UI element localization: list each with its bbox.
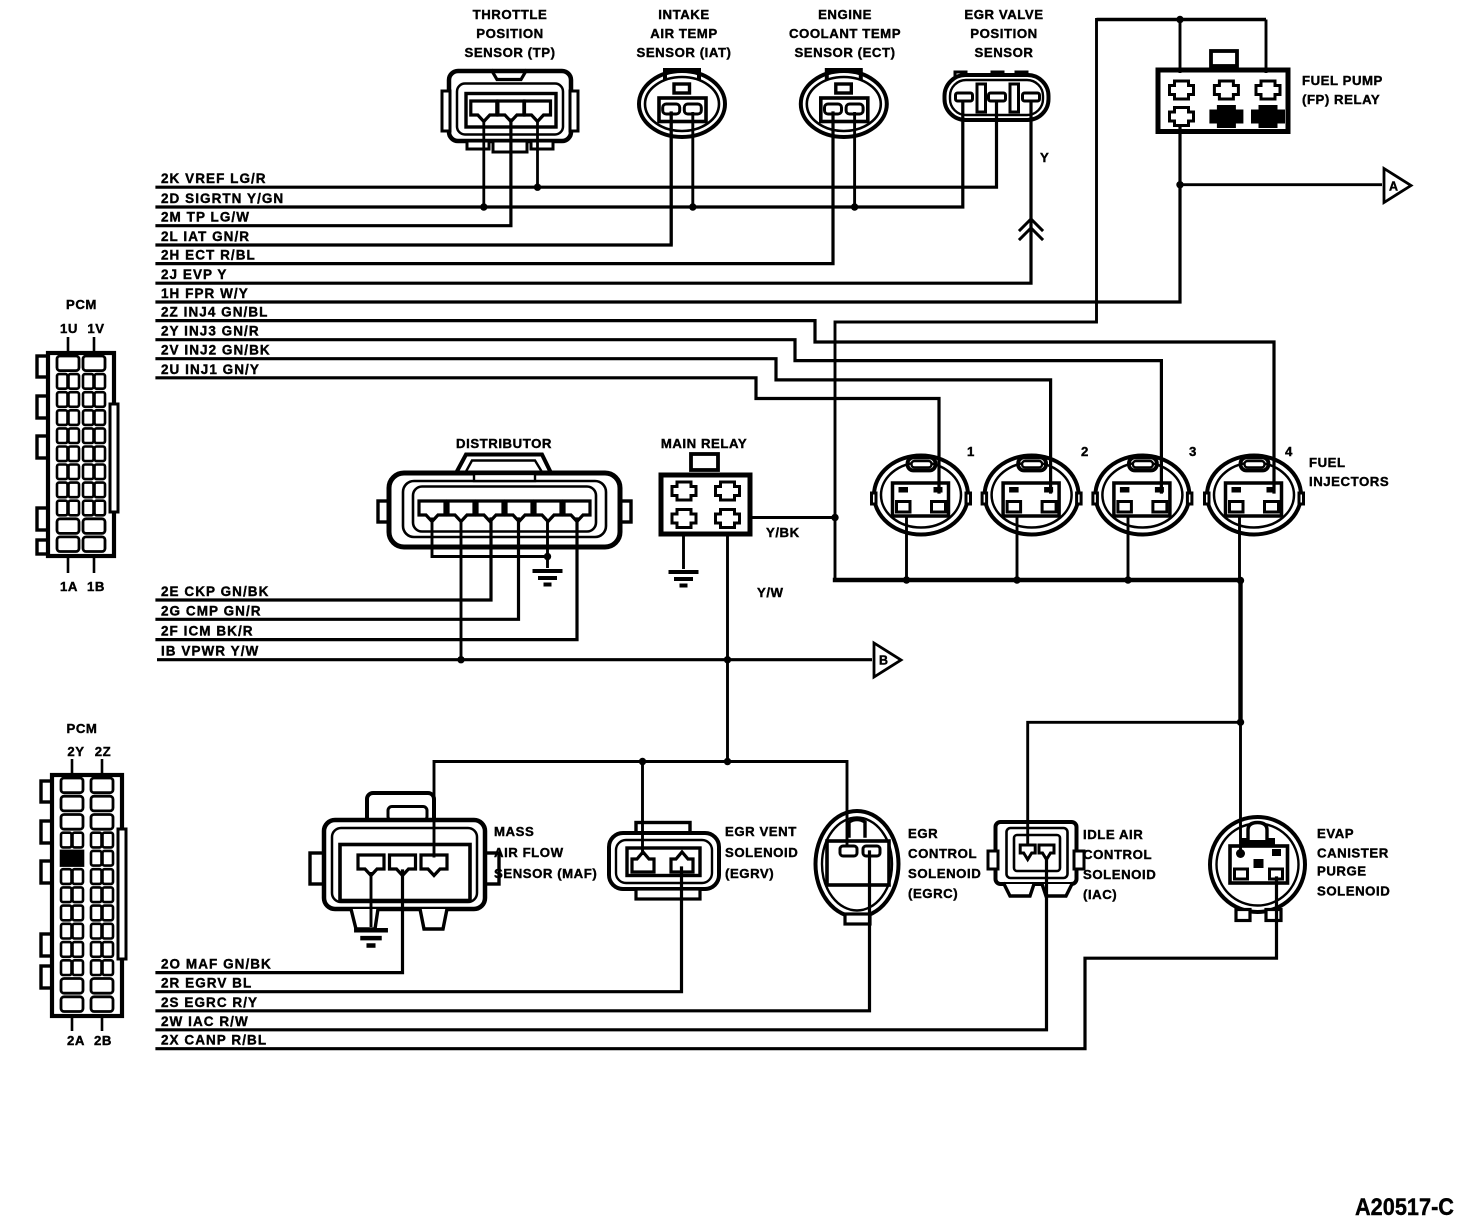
svg-text:SENSOR (IAT): SENSOR (IAT) bbox=[636, 45, 731, 60]
FP relay pin top-right bbox=[1256, 81, 1280, 99]
svg-text:2: 2 bbox=[1081, 444, 1089, 459]
svg-text:MASS: MASS bbox=[494, 824, 534, 839]
wire injector 2 return bbox=[1016, 515, 1019, 580]
MAF pin 1 bbox=[358, 855, 384, 876]
FP relay pin bottom-right (filled) bbox=[1253, 107, 1284, 127]
FP relay pin bottom-mid (filled) bbox=[1211, 107, 1242, 127]
IAC pin 1 bbox=[1020, 845, 1035, 860]
wire 2J EVP row to EGR pin 3 bbox=[157, 103, 1031, 283]
MAF pin 3 bbox=[421, 855, 447, 876]
svg-text:2M TP LG/W: 2M TP LG/W bbox=[161, 210, 250, 225]
svg-text:2Y: 2Y bbox=[67, 744, 84, 759]
EGRC pin 1 bbox=[840, 846, 857, 856]
wire 2O MAF row to MAF pin 2 bbox=[157, 871, 403, 973]
EGR sensor pin 2 bbox=[989, 93, 1006, 101]
junction Y/W branch bbox=[724, 758, 731, 765]
FP relay pin top-mid bbox=[1214, 81, 1238, 99]
svg-text:INTAKE: INTAKE bbox=[658, 7, 709, 22]
svg-text:(IAC): (IAC) bbox=[1083, 887, 1117, 902]
svg-text:1A: 1A bbox=[60, 579, 78, 594]
EGR sensor pin 3 bbox=[1023, 93, 1040, 101]
distributor pin 4 bbox=[506, 501, 532, 522]
wire injector 1 return bbox=[905, 515, 908, 580]
svg-text:2R EGRV BL: 2R EGRV BL bbox=[161, 976, 252, 991]
connector arrow A bbox=[1384, 169, 1411, 203]
distributor pin 1 bbox=[419, 501, 445, 522]
wire 2Y INJ3 row to injector 3 bbox=[157, 340, 1161, 492]
svg-text:IB VPWR Y/W: IB VPWR Y/W bbox=[161, 644, 259, 659]
svg-text:Y/BK: Y/BK bbox=[766, 525, 800, 540]
chevron marker on Y wire bbox=[1020, 228, 1042, 239]
intake air temp sensor (IAT) connector bbox=[639, 70, 725, 137]
wire PCM 1B stub bbox=[93, 556, 96, 573]
svg-text:CONTROL: CONTROL bbox=[1083, 847, 1152, 862]
wire 2X CANP row to EVAP solenoid bbox=[157, 878, 1277, 1049]
wire 2G CMP row to distributor pin 4 bbox=[157, 519, 519, 619]
chevron marker 2 on Y wire bbox=[1020, 219, 1042, 230]
svg-text:SENSOR (ECT): SENSOR (ECT) bbox=[794, 45, 895, 60]
wire 2R EGRV row to EGRV pin 2 bbox=[157, 868, 682, 992]
wire 2L IAT row to IAT pin 1 bbox=[157, 113, 671, 245]
svg-text:CANISTER: CANISTER bbox=[1317, 846, 1389, 861]
TP bottom tab right bbox=[531, 141, 553, 149]
svg-text:2D SIGRTN Y/GN: 2D SIGRTN Y/GN bbox=[161, 191, 284, 206]
wire supply bus to EVAP solenoid bbox=[1239, 722, 1242, 852]
junction 2K/TP3 bbox=[534, 184, 541, 191]
svg-text:(EGRC): (EGRC) bbox=[908, 886, 958, 901]
PCM connector upper bbox=[37, 353, 118, 556]
svg-text:POSITION: POSITION bbox=[970, 26, 1037, 41]
junction 2D/TP1 bbox=[480, 203, 487, 210]
svg-text:A: A bbox=[1389, 180, 1398, 194]
EGRC pin 2 bbox=[863, 846, 880, 856]
throttle position sensor (TP) connector bbox=[442, 71, 578, 141]
svg-text:1H FPR W/Y: 1H FPR W/Y bbox=[161, 286, 249, 301]
svg-text:SOLENOID: SOLENOID bbox=[1083, 867, 1156, 882]
svg-text:FUEL: FUEL bbox=[1309, 455, 1346, 470]
wire 2V INJ2 row to injector 2 bbox=[157, 359, 1051, 492]
svg-text:SOLENOID: SOLENOID bbox=[725, 845, 798, 860]
MAF pin 2 bbox=[390, 855, 416, 876]
IAC pin 2 bbox=[1039, 845, 1054, 860]
svg-text:1B: 1B bbox=[87, 579, 105, 594]
distributor pin 5 bbox=[535, 501, 561, 522]
svg-text:A20517-C: A20517-C bbox=[1355, 1194, 1454, 1221]
engine coolant temp sensor (ECT) connector bbox=[801, 70, 887, 137]
engine coolant temp sensor (ECT) connector pin 1 bbox=[825, 104, 842, 114]
TP pin 3 bbox=[525, 101, 551, 122]
svg-text:EGR VALVE: EGR VALVE bbox=[964, 7, 1043, 22]
wire PCM 1V stub bbox=[93, 337, 96, 353]
distributor pin 2 bbox=[448, 501, 474, 522]
svg-text:SOLENOID: SOLENOID bbox=[1317, 884, 1390, 899]
FP relay pin bottom-left bbox=[1170, 108, 1194, 126]
svg-text:1: 1 bbox=[967, 444, 975, 459]
wire 2S EGRC row to EGRC pin 2 bbox=[157, 852, 870, 1011]
connector arrow B bbox=[874, 643, 901, 677]
svg-text:1U: 1U bbox=[60, 321, 78, 336]
svg-text:AIR TEMP: AIR TEMP bbox=[650, 26, 717, 41]
svg-text:2X CANP R/BL: 2X CANP R/BL bbox=[161, 1033, 267, 1048]
svg-text:3: 3 bbox=[1189, 444, 1197, 459]
EGR valve position sensor connector bbox=[945, 72, 1049, 120]
junction IAC branch bbox=[1237, 719, 1244, 726]
EVAP top bell bbox=[1248, 823, 1267, 841]
wire IB VPWR row bbox=[157, 658, 872, 661]
main relay pin 1 bbox=[672, 482, 696, 500]
wire 1H FPR row to FP relay bbox=[157, 128, 1180, 302]
svg-text:2U INJ1 GN/Y: 2U INJ1 GN/Y bbox=[161, 362, 260, 377]
ground symbol main relay bbox=[669, 572, 699, 586]
EGRC top tab bbox=[849, 820, 865, 837]
main relay bbox=[661, 454, 750, 534]
wire main relay feed to FP relay bus bbox=[835, 20, 1097, 581]
svg-text:2B: 2B bbox=[94, 1033, 112, 1048]
wire FP relay top bus bbox=[1097, 18, 1267, 22]
svg-text:SENSOR (MAF): SENSOR (MAF) bbox=[494, 866, 597, 881]
wire IAC pin1 to supply bus bbox=[1028, 722, 1241, 845]
svg-text:IDLE AIR: IDLE AIR bbox=[1083, 827, 1143, 842]
wire 2W IAC row to IAC pin 2 bbox=[157, 858, 1047, 1030]
wire to FP relay pin top-left bbox=[1179, 20, 1182, 74]
junction 2D/ECT2 bbox=[851, 203, 858, 210]
wire 2M TP row to TP pin 2 bbox=[157, 120, 511, 226]
junction distributor ground bbox=[544, 553, 551, 560]
junction FP bus bbox=[1176, 16, 1183, 23]
svg-text:Y/W: Y/W bbox=[757, 585, 784, 600]
PCM connector lower bbox=[41, 775, 126, 1016]
svg-text:2J EVP Y: 2J EVP Y bbox=[161, 267, 227, 282]
idle air control solenoid (IAC) connector bbox=[988, 822, 1084, 896]
svg-text:PCM: PCM bbox=[66, 297, 97, 312]
fuel injector 1 bbox=[872, 456, 971, 535]
junction 2D/IAT2 bbox=[689, 203, 696, 210]
wire ECT pin2 to 2D bbox=[853, 112, 856, 207]
wire 2E CKP row to distributor pin 3 bbox=[157, 519, 491, 600]
EGRV pin 1 bbox=[632, 852, 654, 872]
svg-text:4: 4 bbox=[1285, 444, 1293, 459]
svg-text:2V INJ2 GN/BK: 2V INJ2 GN/BK bbox=[161, 343, 271, 358]
distributor pin 3 bbox=[477, 501, 503, 522]
svg-text:CONTROL: CONTROL bbox=[908, 846, 977, 861]
svg-text:FUEL PUMP: FUEL PUMP bbox=[1302, 73, 1383, 88]
MAF left foot bbox=[351, 909, 378, 929]
EGR control solenoid (EGRC) connector bbox=[816, 811, 899, 924]
svg-text:2A: 2A bbox=[67, 1033, 85, 1048]
wire PCM 2B stub bbox=[101, 1016, 104, 1031]
svg-text:2Y INJ3 GN/R: 2Y INJ3 GN/R bbox=[161, 324, 260, 339]
TP bottom tab center bbox=[493, 141, 527, 152]
wire Y/W main relay pin4 down bbox=[726, 534, 729, 762]
svg-text:Y: Y bbox=[1040, 150, 1049, 165]
wire PCM 1U stub bbox=[67, 337, 70, 353]
fuel injector 2 bbox=[982, 456, 1081, 535]
intake air temp sensor (IAT) connector pin 1 bbox=[663, 104, 680, 114]
wire TP pin1 to 2D bbox=[482, 119, 485, 207]
junction IB/distributor bbox=[457, 656, 464, 663]
engine coolant temp sensor (ECT) connector pin 2 bbox=[846, 104, 863, 114]
junction injector4 supply bbox=[1237, 577, 1244, 584]
wire PCM 2A stub bbox=[71, 1016, 74, 1031]
wire ECT pin1 drop bbox=[832, 112, 835, 264]
svg-text:POSITION: POSITION bbox=[476, 26, 543, 41]
fuel injector 3 bbox=[1093, 456, 1192, 535]
wire branch to EGRV pin1 bbox=[641, 762, 644, 856]
wire PCM 2Y stub bbox=[71, 759, 74, 775]
EGRV pin 2 bbox=[671, 852, 693, 872]
wire to FP relay pin top-right bbox=[1265, 20, 1268, 74]
svg-text:MAIN RELAY: MAIN RELAY bbox=[661, 436, 747, 451]
wire IAT pin2 to 2D bbox=[691, 112, 694, 207]
svg-text:COOLANT TEMP: COOLANT TEMP bbox=[789, 26, 901, 41]
svg-text:2F ICM BK/R: 2F ICM BK/R bbox=[161, 624, 254, 639]
FP relay pin top-left bbox=[1170, 81, 1194, 99]
wire 2K VREF row to EGR pin 2 bbox=[157, 103, 997, 187]
svg-text:SENSOR (TP): SENSOR (TP) bbox=[464, 45, 555, 60]
wire PCM 2Z stub bbox=[101, 759, 104, 775]
distributor connector bbox=[378, 455, 631, 548]
svg-text:2Z: 2Z bbox=[95, 744, 112, 759]
svg-text:2K VREF LG/R: 2K VREF LG/R bbox=[161, 171, 267, 186]
svg-text:DISTRIBUTOR: DISTRIBUTOR bbox=[456, 436, 552, 451]
wire injector 4 return bbox=[1238, 515, 1241, 581]
svg-text:EGR: EGR bbox=[908, 826, 938, 841]
wire 2U INJ1 row to injector 1 bbox=[157, 378, 939, 492]
junction injector3 supply bbox=[1124, 576, 1131, 583]
svg-text:2Z INJ4 GN/BL: 2Z INJ4 GN/BL bbox=[161, 305, 268, 320]
svg-text:SOLENOID: SOLENOID bbox=[908, 866, 981, 881]
distributor pin 6 bbox=[564, 501, 590, 522]
MAF right foot bbox=[420, 909, 447, 929]
svg-text:2H ECT R/BL: 2H ECT R/BL bbox=[161, 248, 256, 263]
mass air flow sensor (MAF) connector bbox=[310, 793, 499, 929]
wire IAT pin1 drop bbox=[670, 112, 673, 245]
junction injector1 supply bbox=[903, 576, 910, 583]
wire to connector arrow A bbox=[1180, 183, 1382, 186]
svg-text:2W IAC R/W: 2W IAC R/W bbox=[161, 1014, 249, 1029]
svg-text:INJECTORS: INJECTORS bbox=[1309, 474, 1389, 489]
svg-text:(EGRV): (EGRV) bbox=[725, 866, 774, 881]
wire MAF pin1 to ground bbox=[370, 872, 373, 927]
wire injector supply bus bbox=[835, 580, 1241, 722]
IAC left foot bbox=[1004, 884, 1034, 896]
svg-text:2O MAF GN/BK: 2O MAF GN/BK bbox=[161, 957, 272, 972]
wire 2D SIGRTN row to EGR pin 1 bbox=[157, 103, 963, 207]
wire distributor pin 1 to ground net bbox=[432, 519, 548, 557]
svg-text:EVAP: EVAP bbox=[1317, 826, 1354, 841]
junction arrow A branch bbox=[1176, 181, 1183, 188]
fuel pump (FP) relay bbox=[1158, 51, 1288, 132]
TP pin 1 bbox=[471, 101, 497, 122]
EVAP canister purge solenoid connector bbox=[1210, 817, 1305, 921]
svg-text:PCM: PCM bbox=[67, 721, 98, 736]
TP pin 2 bbox=[498, 101, 524, 122]
svg-text:AIR FLOW: AIR FLOW bbox=[494, 845, 564, 860]
PCM connector lower filled pin row5 bbox=[61, 851, 83, 866]
svg-text:ENGINE: ENGINE bbox=[818, 7, 872, 22]
svg-text:2E CKP GN/BK: 2E CKP GN/BK bbox=[161, 584, 269, 599]
wire 2Z INJ4 row to injector 4 bbox=[157, 321, 1274, 492]
EGR sensor pin 1 bbox=[956, 93, 973, 101]
wire PCM 1A stub bbox=[67, 556, 70, 573]
wire 2H ECT row to ECT pin 1 bbox=[157, 113, 833, 264]
svg-text:2S EGRC R/Y: 2S EGRC R/Y bbox=[161, 995, 258, 1010]
wire distributor pin 5 to ground bbox=[546, 519, 549, 568]
wire distributor pin 2 to IB VPWR bbox=[460, 519, 463, 660]
svg-text:1V: 1V bbox=[87, 321, 104, 336]
svg-text:THROTTLE: THROTTLE bbox=[473, 7, 548, 22]
main relay pin 2 bbox=[716, 482, 740, 500]
intake air temp sensor (IAT) connector pin 2 bbox=[684, 104, 701, 114]
svg-text:B: B bbox=[879, 654, 888, 668]
svg-text:2L IAT GN/R: 2L IAT GN/R bbox=[161, 229, 250, 244]
wire 2F ICM row to distributor pin 6 bbox=[157, 519, 577, 640]
svg-text:(FP) RELAY: (FP) RELAY bbox=[1302, 92, 1380, 107]
junction IB/main relay bbox=[724, 656, 731, 663]
svg-text:SENSOR: SENSOR bbox=[975, 45, 1034, 60]
wire TP pin3 to 2K bbox=[536, 119, 539, 187]
TP bottom tab left bbox=[467, 141, 489, 149]
junction Y/BK bbox=[831, 514, 838, 521]
ground symbol distributor bbox=[533, 571, 563, 585]
svg-text:EGR VENT: EGR VENT bbox=[725, 824, 797, 839]
junction EGRV branch bbox=[639, 758, 646, 765]
junction injector2 supply bbox=[1013, 576, 1020, 583]
wire MAF pin3 to EGRC pin1 bbox=[434, 762, 847, 857]
wire injector 3 return bbox=[1127, 515, 1130, 580]
IAC right foot bbox=[1042, 884, 1072, 896]
svg-text:2G CMP GN/R: 2G CMP GN/R bbox=[161, 603, 262, 618]
svg-text:PURGE: PURGE bbox=[1317, 864, 1367, 879]
main relay pin 4 bbox=[716, 510, 740, 528]
main relay pin 3 bbox=[672, 510, 696, 528]
fuel injector 4 bbox=[1205, 456, 1304, 535]
wire Y/BK main relay to junction bbox=[750, 516, 836, 519]
wire main relay pin3 to ground bbox=[682, 534, 685, 569]
EGR vent solenoid (EGRV) connector bbox=[609, 823, 719, 900]
